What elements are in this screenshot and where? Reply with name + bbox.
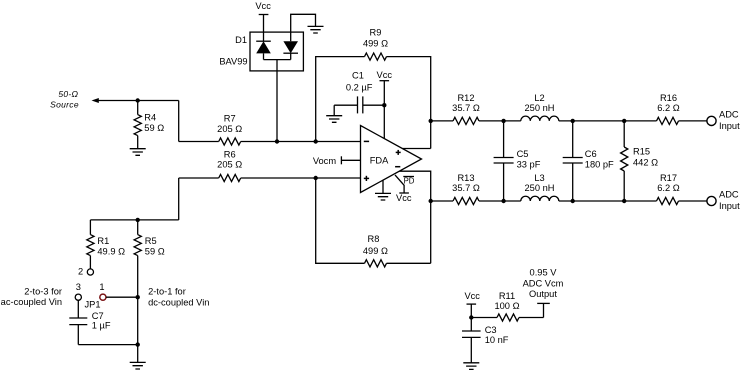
svg-text:59 Ω: 59 Ω [145, 247, 165, 257]
svg-text:Output: Output [529, 289, 557, 299]
ground (D1) [308, 26, 324, 33]
pin: PD (power-down) [395, 175, 415, 193]
wire: R8 loop right [387, 262, 431, 264]
node: C5 bottom tap [501, 199, 505, 203]
svg-text:C6: C6 [585, 149, 597, 159]
svg-text:Vcc: Vcc [255, 1, 271, 11]
pin: -input sign [364, 140, 369, 142]
node: C6 top tap [571, 119, 575, 123]
svg-text:442 Ω: 442 Ω [633, 158, 658, 168]
wire: D1 common cathode bus [264, 59, 291, 61]
svg-text:1: 1 [99, 282, 104, 292]
wire: R7 input line left [179, 141, 219, 143]
label BAV99 [219, 57, 247, 67]
svg-text:R9: R9 [370, 28, 382, 38]
wire: FDA -output [399, 171, 430, 263]
terminal: Vocm input [313, 156, 361, 166]
wire: R5 bottom to ground rail [137, 256, 139, 363]
node: dc-coupling annotation [148, 287, 209, 308]
terminal: ADC input (bottom) [707, 190, 740, 211]
wire: R16 to ADC terminal [679, 120, 707, 122]
svg-text:50-Ω: 50-Ω [58, 89, 78, 99]
svg-text:R1: R1 [97, 236, 109, 246]
capacitor C7 1uF [69, 300, 111, 344]
wire: R13 to L3 [479, 200, 521, 202]
power Vcc (D1) [255, 1, 271, 41]
resistor R13 35.7 ohm [431, 173, 480, 205]
svg-text:ADC: ADC [719, 190, 739, 200]
resistor R5 59 ohm [134, 220, 165, 257]
resistor R7 205 ohm [217, 114, 242, 146]
ground (C3) [463, 363, 479, 370]
wire: C7 bottom to ground rail [78, 344, 137, 346]
svg-text:499 Ω: 499 Ω [363, 39, 388, 49]
svg-text:100 Ω: 100 Ω [494, 301, 519, 311]
node: source / R4 junction [136, 98, 140, 102]
svg-text:C5: C5 [517, 149, 529, 159]
diode D1a (left, anode up) [256, 41, 271, 59]
wire: D1b top to ground [291, 14, 316, 41]
ground (FDA) [375, 180, 391, 200]
wire: R7 to FDA -input [241, 141, 361, 143]
svg-text:6.2 Ω: 6.2 Ω [657, 183, 680, 193]
resistor R6 205 ohm [217, 149, 242, 181]
resistor R12 35.7 ohm [431, 93, 480, 125]
label FDA [370, 155, 389, 165]
diode D1b (right, cathode down) [283, 41, 298, 59]
node: JP1 pin1 tap [136, 295, 140, 299]
svg-text:dc-coupled Vin: dc-coupled Vin [148, 297, 209, 307]
svg-text:Vcc: Vcc [396, 193, 412, 203]
svg-text:49.9 Ω: 49.9 Ω [97, 247, 125, 257]
svg-text:35.7 Ω: 35.7 Ω [452, 103, 480, 113]
svg-text:Vocm: Vocm [313, 156, 337, 166]
label D1 [235, 35, 247, 45]
svg-text:1 µF: 1 µF [92, 320, 111, 330]
pin: -output sign [395, 166, 400, 168]
wire: pin1 to R5 rail [106, 296, 138, 298]
svg-text:250 nH: 250 nH [525, 103, 555, 113]
svg-text:Input: Input [719, 201, 740, 211]
wire: R17 to ADC terminal [679, 200, 707, 202]
svg-text:R6: R6 [224, 149, 236, 159]
wire: R8 feedback loop left/bottom [316, 178, 365, 263]
wire: FDA +output [402, 148, 430, 150]
svg-text:3: 3 [76, 282, 81, 292]
svg-text:ADC Vcm: ADC Vcm [523, 278, 564, 288]
node: +output / R12 tap [429, 119, 433, 123]
svg-text:Input: Input [719, 121, 740, 131]
ground (C1) [326, 105, 342, 122]
svg-text:R13: R13 [457, 173, 474, 183]
node: 50-ohm source annotation [50, 89, 79, 109]
resistor R1 49.9 ohm [87, 220, 125, 269]
svg-text:Source: Source [50, 99, 79, 109]
wire: R6 input line left [179, 177, 219, 179]
label JP1 [85, 300, 101, 310]
node: C5 top tap [501, 119, 505, 123]
node: R15 top tap [622, 119, 626, 123]
wire: R6 down to input network [178, 178, 180, 220]
svg-text:R15: R15 [633, 147, 650, 157]
inductor L2 250nH [521, 93, 559, 121]
svg-text:L2: L2 [534, 93, 544, 103]
svg-text:PD: PD [404, 177, 415, 186]
terminal: JP1 pin 1 [99, 282, 106, 301]
resistor R4 59 ohm [134, 101, 164, 149]
svg-text:499 Ω: 499 Ω [363, 246, 388, 256]
svg-text:250 nH: 250 nH [525, 183, 555, 193]
svg-text:Vcc: Vcc [377, 70, 393, 80]
svg-text:FDA: FDA [370, 155, 389, 165]
terminal: ADC input (top) [707, 109, 740, 131]
svg-text:R5: R5 [145, 236, 157, 246]
svg-text:Vcc: Vcc [464, 291, 480, 301]
wire: R9 loop right down to +output [387, 57, 431, 149]
capacitor C3 10nF [462, 318, 509, 363]
terminal: JP1 pin 2 [78, 267, 93, 277]
wire: R12 to L2 [479, 120, 521, 122]
svg-text:R8: R8 [368, 234, 380, 244]
power Vcc (FDA supply) [377, 70, 393, 139]
wire: R9 feedback loop left/top [316, 57, 365, 142]
wire: R6 to FDA +input [241, 177, 361, 179]
node: Vcc / C3 / R11 junction [469, 315, 473, 319]
svg-text:35.7 Ω: 35.7 Ω [452, 183, 480, 193]
node: C1 / Vcc junction [382, 103, 386, 107]
node: R15 bottom tap [622, 199, 626, 203]
diode D1 BAV99 package box [250, 32, 303, 71]
power Vcc (PD tie) [396, 193, 412, 203]
svg-text:0.2 µF: 0.2 µF [346, 83, 373, 93]
resistor R17 6.2 ohm [657, 173, 680, 205]
svg-text:C3: C3 [485, 325, 497, 335]
resistor R11 100 ohm [471, 291, 543, 321]
svg-text:ac-coupled Vin: ac-coupled Vin [1, 297, 62, 307]
pin: +input sign [364, 176, 369, 181]
resistor R15 442 ohm [621, 121, 658, 201]
node: R8 feedback tap [314, 176, 318, 180]
svg-text:ADC: ADC [719, 109, 739, 119]
capacitor C1 0.2uF [334, 71, 384, 114]
terminal: ADC Vcm output [523, 267, 564, 317]
svg-text:10 nF: 10 nF [485, 335, 509, 345]
resistor R9 499 ohm [363, 28, 388, 61]
wire: source corner down to R7 line [178, 101, 180, 142]
svg-text:2-to-3 for: 2-to-3 for [24, 287, 62, 297]
pin: +output sign [396, 150, 401, 155]
svg-text:2: 2 [78, 267, 83, 277]
svg-text:205 Ω: 205 Ω [217, 160, 242, 170]
svg-text:180 pF: 180 pF [585, 160, 614, 170]
svg-text:L3: L3 [534, 173, 544, 183]
svg-text:205 Ω: 205 Ω [217, 124, 242, 134]
resistor R8 499 ohm [363, 234, 388, 267]
svg-text:R11: R11 [499, 291, 515, 301]
terminal: JP1 pin 3 [75, 282, 81, 301]
svg-text:6.2 Ω: 6.2 Ω [657, 103, 680, 113]
node: R9 feedback tap [314, 139, 318, 143]
ground (R4) [130, 149, 146, 156]
svg-text:D1: D1 [235, 35, 247, 45]
resistor R16 6.2 ohm [657, 93, 680, 125]
capacitor C6 180pF [563, 121, 614, 201]
svg-text:R12: R12 [457, 93, 474, 103]
svg-text:33 pF: 33 pF [517, 160, 541, 170]
wire: L2 to R16 [559, 120, 657, 122]
node: -output / R13 tap [429, 199, 433, 203]
wire: L3 to R17 [559, 200, 657, 202]
svg-text:59 Ω: 59 Ω [144, 123, 164, 133]
svg-text:2-to-1 for: 2-to-1 for [148, 287, 186, 297]
svg-text:JP1: JP1 [85, 300, 101, 310]
node: C6 bottom tap [571, 199, 575, 203]
svg-text:R17: R17 [660, 173, 677, 183]
svg-text:R16: R16 [660, 93, 677, 103]
svg-text:C1: C1 [352, 71, 364, 81]
ground (input network) [130, 362, 146, 369]
svg-text:R7: R7 [224, 114, 236, 124]
svg-text:0.95 V: 0.95 V [530, 267, 558, 277]
op-amp U1 FDA triangle [361, 126, 422, 193]
node: R5 tap on bus [136, 218, 140, 222]
svg-text:BAV99: BAV99 [219, 57, 247, 67]
wire: D1 tap down to R7 line [276, 60, 278, 142]
power Vcc (Vcm divider) [464, 291, 480, 318]
capacitor C5 33pF [494, 121, 541, 201]
node: D1 tap on R7 line [275, 139, 279, 143]
node: ac-coupling annotation [1, 287, 62, 307]
wire: R1/R5 top bus [90, 219, 178, 221]
svg-text:R4: R4 [144, 112, 156, 122]
wire: source line with arrow [92, 98, 179, 103]
inductor L3 250nH [521, 173, 559, 201]
node: C7 bottom tap [136, 342, 140, 346]
